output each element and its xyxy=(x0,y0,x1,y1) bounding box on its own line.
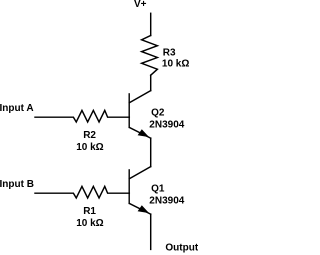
wire Input B + resistor R1 to Q1 base xyxy=(35,186,129,198)
wire V+ to R3 top xyxy=(150,13,152,35)
svg-text:R3: R3 xyxy=(163,47,176,58)
transistor Q1 collector lead xyxy=(129,167,150,179)
transistor Q1 base bar xyxy=(128,170,130,204)
wire Q2 emitter to Q1 collector xyxy=(150,138,152,166)
svg-text:Input A: Input A xyxy=(0,103,34,114)
svg-text:10 kΩ: 10 kΩ xyxy=(76,142,103,153)
svg-text:Input B: Input B xyxy=(0,179,34,190)
svg-text:2N3904: 2N3904 xyxy=(149,119,184,130)
svg-text:R1: R1 xyxy=(83,206,96,217)
transistor Q2 emitter lead xyxy=(129,127,150,138)
svg-text:Q2: Q2 xyxy=(151,108,165,119)
svg-text:V+: V+ xyxy=(134,0,147,10)
Q1 emitter arrowhead xyxy=(138,205,150,213)
transistor Q2 base bar xyxy=(128,94,130,128)
svg-text:Q1: Q1 xyxy=(151,184,165,195)
Q2 emitter arrowhead xyxy=(138,129,150,137)
svg-text:10 kΩ: 10 kΩ xyxy=(162,59,189,70)
svg-text:10 kΩ: 10 kΩ xyxy=(76,218,103,229)
transistor Q1 emitter lead xyxy=(129,203,150,214)
wire R3 bottom to Q2 collector xyxy=(150,75,152,90)
svg-text:2N3904: 2N3904 xyxy=(149,195,184,206)
wire Input A + resistor R2 to Q2 base xyxy=(35,110,129,122)
svg-text:R2: R2 xyxy=(83,130,96,141)
svg-text:Output: Output xyxy=(165,243,198,254)
transistor Q2 collector lead xyxy=(129,91,150,103)
wire Q1 emitter to Output xyxy=(150,214,152,249)
resistor R3 xyxy=(142,36,158,76)
